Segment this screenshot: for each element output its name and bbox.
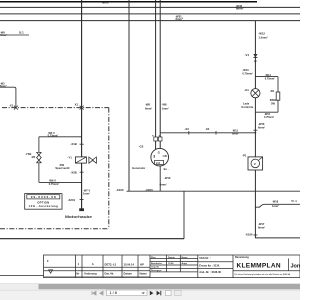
svg-text:-X100: -X100	[116, 188, 124, 192]
svg-text:0.75mm²: 0.75mm²	[264, 115, 274, 119]
svg-text:6mm²: 6mm²	[232, 132, 239, 136]
scrollbar thumb	[39, 284, 301, 289]
wire loop top	[39, 136, 82, 138]
svg-text:Datum: Datum	[124, 272, 133, 276]
off-page stub wire top-left	[0, 34, 29, 36]
toolbar	[0, 290, 300, 300]
svg-text:Datum: Datum	[168, 256, 175, 259]
svg-text:W: W	[152, 136, 154, 138]
boundary top segment	[2, 107, 109, 109]
svg-text:Name: Name	[182, 257, 189, 259]
svg-text:680Ω: 680Ω	[270, 98, 276, 102]
svg-text:Ersatz für : 3134.: Ersatz für : 3134.	[199, 263, 220, 267]
bus line 3	[0, 13, 300, 15]
svg-text:5/ .1: 5/ .1	[291, 199, 297, 203]
svg-text:-W18: -W18	[272, 200, 279, 204]
bus line 4	[0, 20, 300, 22]
svg-text:Generator: Generator	[132, 166, 146, 170]
nav last page button	[157, 291, 161, 296]
TITLE BLOCK	[0, 255, 300, 278]
svg-text:0.75mm²: 0.75mm²	[49, 182, 60, 186]
valve plug Y4B symbol	[37, 152, 42, 162]
wire B x=129	[128, 0, 130, 191]
svg-text:6mm²: 6mm²	[145, 106, 152, 110]
svg-text:KLEMMPLAN: KLEMMPLAN	[237, 263, 282, 270]
svg-text:4mm²: 4mm²	[0, 33, 7, 37]
name cell divider	[233, 270, 300, 272]
svg-text:-X4: -X4	[205, 127, 210, 131]
sheet bottom border stub	[0, 275, 44, 277]
column dividers	[75, 255, 77, 278]
svg-text:Normgepr.: Normgepr.	[151, 270, 162, 272]
row lines left part	[44, 266, 151, 268]
svg-text:Sperrventil: Sperrventil	[55, 166, 69, 170]
resistor branch bottom	[255, 111, 278, 113]
svg-text:-E1: -E1	[244, 88, 249, 92]
svg-text:-V1: -V1	[245, 53, 250, 57]
terminal box B+ lead	[158, 137, 162, 141]
svg-text:Änderung: Änderung	[84, 272, 97, 276]
svg-text:-X2B: -X2B	[70, 171, 76, 175]
svg-text:-W14: -W14	[265, 74, 272, 77]
terminal tick on wire E	[253, 129, 257, 131]
wire E x=255.4 (lamp circuit feed)	[254, 21, 256, 238]
wire E bottom run to edge	[255, 237, 300, 239]
terminal box W lead	[154, 137, 158, 141]
svg-text:-Y4B: -Y4B	[25, 152, 31, 156]
page combo box	[107, 290, 148, 296]
svg-text:DET3.-L3: DET3.-L3	[105, 262, 117, 266]
svg-text:Geprüft: Geprüft	[151, 266, 159, 269]
svg-text:-W13: -W13	[242, 68, 249, 72]
svg-text:V: V	[254, 162, 256, 166]
svg-text:Für diese Zeichnung behalten w: Für diese Zeichnung behalten wir uns all…	[235, 273, 291, 276]
page layout icon 2	[175, 291, 182, 296]
svg-text:1mm²: 1mm²	[272, 204, 279, 208]
resistor branch top	[255, 76, 278, 78]
boundary right segment	[108, 108, 110, 229]
svg-text:3: 3	[153, 155, 155, 159]
boundary bottom segment	[0, 228, 109, 230]
svg-text:-G2: -G2	[139, 145, 144, 149]
svg-text:-X201: -X201	[68, 198, 76, 202]
svg-text:Kontrolle: Kontrolle	[241, 105, 253, 109]
svg-text:Auge: Auge	[182, 262, 188, 265]
svg-text:Dat.-Nr.: Dat.-Nr.	[105, 272, 115, 276]
svg-text:-X1B: -X1B	[70, 142, 76, 146]
revision triangle	[49, 270, 53, 273]
svg-text:Änd.-Nr. : 6046.06: Änd.-Nr. : 6046.06	[199, 270, 221, 274]
svg-text:-W10: -W10	[164, 176, 171, 180]
svg-text:Zhm: Zhm	[151, 257, 156, 259]
svg-text:0.75mm²: 0.75mm²	[265, 76, 275, 80]
svg-text:-X1: -X1	[9, 103, 14, 107]
svg-text:Bearbeitet: Bearbeitet	[151, 262, 162, 265]
svg-text:6mm²: 6mm²	[236, 7, 244, 11]
svg-text:Jona: Jona	[291, 263, 301, 269]
svg-text:M4: M4	[32, 155, 36, 159]
wire C x=155.6 (generator W lead)	[155, 0, 157, 149]
svg-text:1 / 8: 1 / 8	[110, 291, 117, 295]
svg-text:6mm²: 6mm²	[160, 182, 167, 186]
svg-text:-X3: -X3	[184, 127, 189, 131]
OPTION box	[25, 194, 62, 210]
svg-text:5W: 5W	[271, 102, 275, 106]
bus line 2	[0, 6, 300, 8]
svg-text:0.75mm²: 0.75mm²	[242, 72, 253, 76]
svg-text:HP: HP	[140, 262, 144, 266]
svg-text:Nr: Nr	[76, 272, 79, 276]
long engine wire	[127, 190, 301, 192]
svg-text:99-6303-08: 99-6303-08	[31, 195, 56, 199]
D+ wire from generator to lamp circuit	[160, 132, 255, 134]
wire loop left upper	[38, 137, 40, 152]
nav prev button (disabled)	[100, 291, 103, 295]
svg-text:-W8: -W8	[145, 103, 150, 107]
junction node D+ / wire E	[255, 132, 257, 134]
generator bottom lead	[159, 166, 161, 191]
wire A end connector	[79, 208, 84, 211]
title block frame	[44, 255, 301, 278]
svg-text:Name: Name	[140, 272, 148, 276]
svg-text:1.5mm²: 1.5mm²	[258, 35, 268, 39]
svg-text:15.06: 15.06	[168, 263, 174, 265]
valve actuator triangles	[89, 157, 97, 163]
svg-text:Benennung: Benennung	[235, 256, 249, 259]
svg-text:1mm²: 1mm²	[162, 106, 169, 110]
generator G1 circle	[151, 148, 169, 166]
svg-text:2/.1: 2/.1	[19, 30, 24, 34]
engine enclosure bottom	[0, 238, 184, 240]
svg-text:-W12: -W12	[258, 32, 265, 36]
page layout icon	[166, 291, 172, 296]
svg-text:6mm²: 6mm²	[258, 125, 265, 129]
revision subtable rows	[150, 257, 198, 259]
svg-text:X1: X1	[75, 102, 79, 106]
wire D x=160.2 (generator B+ lead)	[159, 0, 161, 148]
svg-text:-P1: -P1	[242, 154, 247, 158]
nav first-page button (disabled)	[92, 291, 96, 295]
info column rows	[198, 261, 233, 263]
svg-text:0.75mm²: 0.75mm²	[48, 134, 59, 138]
branch wire to 5/.1	[255, 204, 300, 207]
svg-text:-W17: -W17	[258, 222, 265, 226]
svg-text:1mm²: 1mm²	[83, 192, 90, 196]
svg-text:6mm²: 6mm²	[176, 17, 184, 21]
wire loop bottom	[39, 181, 82, 183]
svg-text:VGS-Nr. :: VGS-Nr. :	[199, 256, 211, 260]
svg-text:6mm²: 6mm²	[258, 226, 265, 230]
wire loop left lower	[38, 163, 40, 183]
bus line 30 (thick top)	[0, 1, 257, 3]
wire A x=81.6	[81, 0, 83, 209]
svg-text:6mm²: 6mm²	[102, 1, 110, 5]
resistor branch right	[277, 77, 279, 92]
svg-text:2.2: 2.2	[156, 161, 160, 165]
svg-text:15.04.14: 15.04.14	[124, 262, 135, 266]
svg-text:Motorhaube: Motorhaube	[65, 215, 92, 219]
scrollbar track	[0, 283, 300, 290]
svg-text:-W6 V: -W6 V	[49, 179, 56, 183]
svg-text:6mm²: 6mm²	[0, 84, 7, 88]
svg-text:B+ .: B+ .	[164, 167, 169, 171]
svg-text:-W8: -W8	[162, 103, 167, 107]
svg-text:-Y1: -Y1	[67, 155, 72, 159]
engine enclosure right side	[183, 191, 185, 239]
nav next button	[150, 291, 154, 296]
left feed wire with corner	[0, 87, 16, 107]
svg-text:LFG - Ausrüstung: LFG - Ausrüstung	[29, 204, 58, 208]
svg-text:-X190: -X190	[245, 233, 253, 237]
svg-text:-R1: -R1	[270, 89, 275, 93]
